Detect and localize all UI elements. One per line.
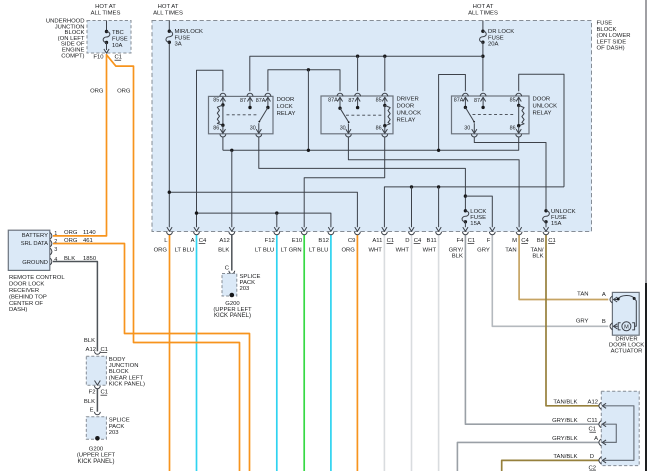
node exit-A net tap to exits F12 and B12 [197,213,331,227]
svg-text:DR LOCK: DR LOCK [488,29,514,35]
pin 87 of driver door unlock relay [355,93,361,96]
svg-text:TAN/BLK: TAN/BLK [553,400,577,406]
svg-text:(NEAR LEFT: (NEAR LEFT [109,375,144,381]
svg-text:PACK: PACK [109,424,125,430]
exit pin B11 of fuse block (WHT wire) [436,227,441,231]
wire LT BLU exit B12 to page bottom [330,235,332,471]
coil of driver door unlock relay (85-86) [384,105,386,125]
svg-text:1140: 1140 [83,230,96,236]
wire LT BLU exit A/C4 to page bottom [196,235,198,471]
lock mechanism symbol inside actuator [614,299,619,301]
node tap to driver door unlock relay pin 87 [356,55,359,58]
pin A12 of door module connector (TAN/BLK) [599,402,601,409]
fuse MIR/LOCK FUSE 3A [168,30,171,33]
svg-text:C1: C1 [101,347,109,353]
pin F2 / connector C1 out of body junction block [95,380,101,385]
wire BLK inside splice pack 203 (A12) to ground G200 [231,276,233,294]
pin C11 of door module connector (GRY/BLK) [599,421,601,428]
exit pin A11 of fuse block (WHT wire) [382,227,387,231]
svg-text:4: 4 [54,257,57,263]
wire driver door unlock relay pin 86 to exit E10 (LT GRN) [304,137,385,227]
underhood junction block (TBC fuse holder) [87,21,131,54]
wire WHT exit A11/C1 to page bottom [383,235,385,471]
svg-text:TAN/BLK: TAN/BLK [553,454,577,460]
module BODY JUNCTION BLOCK (NEAR LEFT KICK PANEL) [86,356,106,385]
fuse UNLOCK FUSE 15A [544,209,547,212]
pin 4 (ground) of receiver [50,258,52,265]
svg-text:FUSE: FUSE [175,35,191,41]
exit pin B12 of fuse block (LT BLU wire) [328,227,333,231]
svg-text:(BEHIND TOP: (BEHIND TOP [9,294,47,300]
svg-text:UNLOCK: UNLOCK [397,111,422,117]
svg-text:C1: C1 [101,390,109,396]
svg-text:RELAY: RELAY [533,111,552,117]
svg-text:FUSE: FUSE [597,21,613,27]
motor M inside actuator [614,325,618,327]
svg-text:OF DASH): OF DASH) [597,46,625,52]
svg-text:C2: C2 [588,465,596,471]
svg-text:M: M [624,325,629,331]
node DR LOCK fuse junction with relay feed bus [481,55,484,58]
svg-text:E10: E10 [292,238,303,244]
wire door lock relay pin 85 bridge to exit A/C4 (LT BLU net) [197,70,223,227]
svg-text:30: 30 [464,126,470,132]
pin 3 (unused) of receiver [50,248,52,255]
svg-text:BLOCK: BLOCK [109,369,129,375]
svg-text:15A: 15A [470,221,481,227]
pin 87A of driver door unlock relay [337,93,343,96]
pin 86 of door unlock relay [518,126,520,133]
wire LT GRN exit E10 to page bottom [303,235,305,471]
wire BLK inside body junction block [96,356,98,385]
svg-text:SPLICE: SPLICE [240,274,261,280]
svg-text:85: 85 [213,97,219,103]
svg-text:FUSE: FUSE [488,35,504,41]
pin A of door module connector (GRY/BLK) [599,439,601,446]
internal jumper between pins A12 and D [604,406,634,461]
exit pin F of fuse block (GRY wire) [490,227,495,231]
svg-text:87A: 87A [256,98,266,104]
module REMOTE CONTROL DOOR LOCK RECEIVER [8,230,50,270]
svg-text:3: 3 [54,247,57,253]
relay K2 DRIVER DOOR UNLOCK RELAY [321,96,393,134]
svg-text:87A: 87A [454,97,464,103]
wire relay feed bus: door lock relay 87 to DR LOCK fuse, taps to driver door unlock relay 87 and 85 [250,56,483,91]
svg-text:ORG: ORG [64,238,78,244]
svg-text:ALL TIMES: ALL TIMES [91,11,121,17]
svg-text:15A: 15A [551,221,562,227]
wire GRY/BLK exit F4/C1 to door module pin C11 [465,235,599,424]
pin 86 of door lock relay [222,125,224,133]
svg-text:LT BLU: LT BLU [309,247,328,253]
node ground bus tap from relay 87A bridge [307,149,310,152]
wire GRY exit F to driver door lock actuator pin B [492,235,608,326]
pin B of driver door lock actuator [610,323,612,330]
svg-text:86: 86 [376,126,382,132]
svg-text:FUSE: FUSE [551,215,567,221]
page edge line [645,0,647,283]
svg-text:C4: C4 [199,238,207,244]
ground G200 splice dot (A12) [230,293,235,298]
svg-text:87: 87 [474,98,480,104]
svg-text:3A: 3A [175,42,182,48]
svg-text:C1: C1 [468,238,476,244]
svg-text:C1: C1 [548,238,556,244]
svg-text:MIR/LOCK: MIR/LOCK [175,29,204,35]
svg-text:FUSE: FUSE [470,215,486,221]
svg-text:203: 203 [109,430,120,436]
svg-text:C1: C1 [588,427,596,433]
fuse TBC FUSE 10A [106,21,108,32]
svg-text:TAN/: TAN/ [531,247,544,253]
svg-text:DASH): DASH) [9,307,27,313]
svg-text:DOOR: DOOR [533,97,551,103]
svg-text:C1: C1 [115,55,123,61]
internal jumper between pins C11 and A [604,424,617,442]
wire door lock relay pin 30 to LOCK fuse and exit F branch [259,137,466,210]
dashed actuation link of driver door unlock relay [346,114,382,116]
svg-text:ACTUATOR: ACTUATOR [611,349,643,355]
svg-text:RECEIVER: RECEIVER [9,288,39,294]
svg-text:85: 85 [376,97,382,103]
svg-text:1850: 1850 [83,256,97,262]
svg-text:LT GRN: LT GRN [281,247,302,253]
svg-text:WHT: WHT [423,247,437,253]
svg-text:HOT AT: HOT AT [95,4,116,10]
svg-text:2: 2 [54,239,57,245]
wire GRY/BLK from page bottom to door module pin A [457,442,599,471]
svg-text:BLK: BLK [64,256,75,262]
pin 87 of door unlock relay [480,93,486,96]
svg-text:85: 85 [510,97,516,103]
svg-text:BLK: BLK [532,254,543,260]
wire LT BLU exit F12 to page bottom [276,235,278,471]
svg-text:TAN: TAN [505,247,516,253]
fuse block (main dashed block on lower left side of dash) [152,21,592,232]
wire WHT net: exit A11 riser with taps to exits D and B11, joined to door unlock relay 85 [384,187,564,227]
wire door unlock relay 85 bridge to WHT net riser [519,74,564,187]
pin A of driver door lock actuator [610,296,612,303]
svg-text:WHT: WHT [368,247,382,253]
svg-text:RELAY: RELAY [397,118,416,124]
svg-text:LT BLU: LT BLU [255,247,274,253]
wire BLK circuit 1850: receiver pin 4 ground to body junction block [53,262,97,352]
wire ORG from TBC fuse F10 to remote receiver pin 1 (battery) [53,54,107,236]
svg-text:DRIVER: DRIVER [615,336,637,342]
svg-text:ORG: ORG [154,247,168,253]
svg-text:LOCK: LOCK [277,104,293,110]
svg-text:M: M [512,238,517,244]
wire TAN/BLK exit B8/C1 to door module pin A12 [546,235,599,406]
wire ORG exit C9 to page bottom [356,235,358,471]
svg-text:20A: 20A [488,42,499,48]
svg-text:461: 461 [83,238,93,244]
svg-text:C: C [225,265,230,271]
svg-text:HOT AT: HOT AT [158,4,179,10]
switch arm of driver door unlock relay (87A to 30) [340,108,349,122]
wire 87A bridge: door lock relay 87A to driver door unlock relay 87A with drop to ground bus [268,70,340,91]
exit pin B8 of fuse block (TAN/ BLK wire) [543,227,548,231]
wire TAN/BLK from page bottom to door module pin D [502,460,600,471]
wire WHT exit D/C4 to page bottom [411,235,413,471]
svg-text:D: D [405,238,409,244]
wire ORG circuit 461: receiver pin 2 SRL DATA down and right to page bottom [53,244,250,471]
pin 30 of driver door unlock relay [347,124,349,133]
svg-text:LEFT SIDE: LEFT SIDE [597,39,627,45]
svg-text:GRY: GRY [576,318,589,324]
node ground bus to exit A12 [230,149,233,152]
exit pin F4 of fuse block (GRY/ BLK wire) [463,227,468,231]
svg-text:(ON LOWER: (ON LOWER [597,33,631,39]
svg-text:CENTER OF: CENTER OF [9,301,43,307]
svg-text:ALL TIMES: ALL TIMES [468,11,498,17]
svg-text:F: F [487,238,491,244]
svg-text:COMPT): COMPT) [61,53,84,59]
module SPLICE PACK 203 (A12 ground) [222,274,237,297]
pin 1 (battery) of receiver [50,233,52,240]
svg-text:DOOR LOCK: DOOR LOCK [9,282,44,288]
svg-text:GRY: GRY [477,247,490,253]
svg-text:87A: 87A [328,97,338,103]
svg-text:DRIVER: DRIVER [397,97,419,103]
coil of door lock relay (85-86) [222,105,224,125]
relay K1 DOOR LOCK RELAY [209,96,274,133]
svg-text:B8: B8 [537,238,545,244]
pin 87A of door unlock relay [463,93,469,96]
exit pin M of fuse block (TAN wire) [517,227,522,231]
switch arm of door lock relay (87A to 30) [259,108,268,122]
wire BLK exit A12 to splice pack 203 [231,235,233,271]
svg-text:86: 86 [213,126,219,132]
exit pin A of fuse block (LT BLU wire) [194,227,199,231]
svg-text:C1: C1 [387,238,395,244]
exit pin C9 of fuse block (ORG wire) [355,227,360,231]
svg-text:ORG: ORG [64,230,78,236]
pin 87 of door lock relay [247,93,253,96]
module SPLICE PACK 203 (left) [86,417,106,440]
exit pin D of fuse block (WHT wire) [409,227,414,231]
wire MIR/LOCK fuse net: down to exit L with branch to exit C9 [168,21,170,32]
dashed actuation link of door lock relay [227,114,257,116]
svg-text:ALL TIMES: ALL TIMES [153,11,183,17]
svg-text:DOOR: DOOR [397,104,415,110]
ground G200 splice dot [95,436,100,441]
svg-text:UNLOCK: UNLOCK [551,209,576,215]
wire ground bus: relay1 86, 87A nets, relay3 86 to BLK exit A12 [222,137,224,150]
svg-text:A11: A11 [372,238,382,244]
wire ORG from TBC fuse second branch down to page bottom [107,55,240,471]
svg-text:203: 203 [240,286,251,292]
svg-text:DOOR: DOOR [277,97,295,103]
wire BLK from body junction block F2 to splice pack 203 [96,389,98,412]
node LOCK fuse branch to exit F (GRY) [464,194,467,197]
wire ORG exit L to page bottom [169,235,171,471]
svg-text:REMOTE CONTROL: REMOTE CONTROL [9,275,65,281]
svg-text:UNLOCK: UNLOCK [533,104,558,110]
svg-text:F12: F12 [265,238,275,244]
svg-text:F10: F10 [93,55,104,61]
exit pin F12 of fuse block (LT BLU wire) [274,227,279,231]
svg-text:BATTERY: BATTERY [22,233,48,239]
svg-text:GRY/: GRY/ [449,247,464,253]
exit pin L of fuse block (ORG wire) [167,227,172,231]
svg-text:B: B [602,319,606,325]
module DRIVER DOOR LOCK ACTUATOR [612,292,639,335]
pin 85 of driver door unlock relay [382,93,388,96]
svg-text:30: 30 [340,126,346,132]
pin 2 (SRL data) of receiver [50,240,52,247]
svg-text:87: 87 [348,98,354,104]
wire door unlock relay 87A bridge with drop to ground bus [439,75,466,151]
svg-text:1: 1 [54,231,57,237]
wire driver door unlock relay pin 30 to exit M (TAN) [348,137,519,227]
svg-text:(UPPER LEFT: (UPPER LEFT [77,453,116,459]
svg-text:B11: B11 [427,238,437,244]
svg-text:SRL DATA: SRL DATA [21,241,48,247]
svg-text:BLK: BLK [452,254,463,260]
svg-text:JUNCTION: JUNCTION [109,363,139,369]
svg-text:A: A [191,238,195,244]
svg-text:F4: F4 [457,238,465,244]
svg-text:D: D [590,454,594,460]
svg-text:LT BLU: LT BLU [175,247,194,253]
svg-text:F2: F2 [89,390,96,396]
wire BLK inside splice pack 203 to ground G200 [96,419,98,437]
pin 85 of door lock relay [220,93,226,96]
svg-text:10A: 10A [112,43,123,49]
node ground bus tap from door unlock relay 87A [437,149,440,152]
dashed actuation link of door unlock relay [473,114,516,116]
svg-text:KICK PANEL): KICK PANEL) [78,459,115,465]
fuse DR LOCK FUSE 20A and feed to relay bus [482,21,484,32]
svg-text:HOT AT: HOT AT [473,4,494,10]
node tap to driver door unlock relay pin 85 [383,55,386,58]
fuse LOCK FUSE 15A [464,209,467,212]
svg-text:87: 87 [240,98,246,104]
svg-text:86: 86 [510,126,516,132]
pin 87A of door lock relay [265,93,271,96]
svg-text:ORG: ORG [341,247,355,253]
svg-text:BODY: BODY [109,357,126,363]
svg-text:BLK: BLK [218,247,229,253]
wire WHT exit B11 to page bottom [438,235,440,471]
svg-text:KICK PANEL): KICK PANEL) [214,313,251,319]
switch arm of door unlock relay (87A to 30) [465,107,474,121]
pin 30 of door lock relay [258,123,260,133]
svg-text:A: A [594,436,598,442]
svg-text:C4: C4 [414,238,422,244]
svg-text:PACK: PACK [240,280,256,286]
svg-text:WHT: WHT [396,247,410,253]
svg-text:TAN: TAN [577,292,588,298]
exit pin A12 of fuse block (BLK wire) [229,227,234,231]
svg-text:GROUND: GROUND [22,260,48,266]
svg-text:C4: C4 [521,238,529,244]
exit pin E10 of fuse block (LT GRN wire) [302,227,307,231]
pin 30 of door unlock relay [473,123,475,133]
svg-text:30: 30 [250,126,256,132]
svg-text:C11: C11 [587,418,597,424]
pin D of door module connector (TAN/BLK) [599,457,601,464]
svg-text:GRY/BLK: GRY/BLK [552,436,578,442]
pin 86 of driver door unlock relay [384,126,386,133]
svg-text:BLOCK: BLOCK [597,27,617,33]
svg-text:B12: B12 [318,238,328,244]
svg-text:A12: A12 [588,400,598,406]
relay K3 DOOR UNLOCK RELAY [452,96,530,134]
svg-text:A: A [602,292,606,298]
svg-text:A12: A12 [219,238,229,244]
svg-text:RELAY: RELAY [277,111,296,117]
svg-text:G200: G200 [89,446,104,452]
svg-text:C9: C9 [348,238,356,244]
svg-text:SPLICE: SPLICE [109,418,130,424]
pin 85 of door unlock relay [516,93,522,96]
svg-text:BLK: BLK [84,338,95,344]
svg-text:E: E [90,408,94,414]
coil of door unlock relay (85-86) [518,105,520,125]
svg-text:KICK PANEL): KICK PANEL) [109,382,145,388]
svg-text:DOOR LOCK: DOOR LOCK [609,343,644,349]
svg-text:ORG: ORG [90,89,104,95]
svg-text:TBC: TBC [112,30,125,36]
svg-text:GRY/BLK: GRY/BLK [552,418,578,424]
wire door unlock relay pin 30 to UNLOCK fuse and exit B8 [474,137,546,210]
svg-text:ORG: ORG [117,89,131,95]
module door module connector (dashed, lower right) [601,391,639,465]
svg-text:FUSE: FUSE [112,36,128,42]
svg-text:BLK: BLK [84,399,95,405]
wire TAN exit M/C4 to driver door lock actuator pin A [519,235,608,300]
svg-text:LOCK: LOCK [470,209,486,215]
